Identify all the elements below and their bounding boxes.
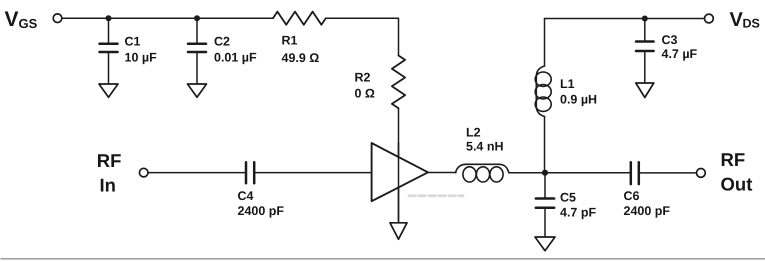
svg-text:GS: GS: [19, 16, 38, 31]
label VDS: [730, 9, 760, 31]
terminal VGS: [53, 14, 62, 23]
svg-text:4.7 µF: 4.7 µF: [662, 47, 698, 61]
label C2 value: [214, 34, 257, 64]
label C6 value: [624, 189, 671, 218]
label L1 value: [560, 77, 597, 106]
wire RF In: [148, 172, 244, 174]
capacitor C4: [246, 162, 371, 183]
label C3 value: [662, 33, 698, 61]
svg-text:10 µF: 10 µF: [125, 51, 158, 65]
svg-text:Out: Out: [721, 174, 753, 195]
label C1 value: [125, 34, 158, 64]
svg-text:C1: C1: [125, 34, 141, 48]
svg-text:RF: RF: [721, 149, 746, 170]
label C4 value: [238, 189, 285, 218]
ground under C2: [188, 84, 207, 97]
wire L2 to C6: [509, 172, 630, 174]
svg-text:R2: R2: [355, 71, 371, 85]
svg-text:C4: C4: [238, 189, 254, 203]
node C2 junction: [194, 15, 200, 21]
ground under C1: [99, 84, 118, 97]
svg-text:5.4 nH: 5.4 nH: [466, 140, 504, 154]
ground under C3: [636, 83, 654, 98]
svg-text:C5: C5: [560, 190, 576, 204]
ground under C5: [535, 237, 555, 251]
svg-text:L1: L1: [560, 77, 575, 91]
wire R1 to corner and down to R2: [326, 18, 399, 55]
wire amp output: [428, 172, 456, 174]
node C1 junction: [106, 15, 112, 21]
wire R2 line through amp: [398, 143, 400, 223]
label L2 value: [466, 126, 504, 154]
svg-text:2400 pF: 2400 pF: [624, 204, 671, 218]
wire VDS rail down to L1: [544, 19, 546, 67]
svg-text:0 Ω: 0 Ω: [355, 87, 375, 101]
svg-text:2400 pF: 2400 pF: [238, 204, 285, 218]
label RF In: [97, 150, 122, 196]
svg-text:4.7 pF: 4.7 pF: [560, 206, 596, 220]
svg-text:C6: C6: [624, 189, 640, 203]
label R1 value: [282, 34, 320, 66]
resistor R2: [392, 56, 405, 109]
terminal RF In: [139, 168, 148, 177]
inductor L2: [456, 164, 509, 182]
capacitor C3: [636, 19, 654, 84]
resistor R1: [273, 12, 326, 25]
svg-text:C2: C2: [214, 34, 230, 48]
svg-text:V: V: [5, 8, 19, 31]
capacitor C2: [188, 18, 206, 84]
terminal RF Out: [697, 169, 706, 178]
svg-text:V: V: [730, 9, 744, 31]
svg-text:DS: DS: [743, 17, 760, 31]
wire VGS rail: [62, 17, 273, 19]
capacitor C6: [631, 162, 697, 184]
scan artifact bottom line: [1, 258, 765, 260]
terminal VDS: [705, 14, 714, 23]
svg-text:C3: C3: [662, 33, 678, 47]
svg-text:0.9 µH: 0.9 µH: [560, 93, 597, 107]
label C5 value: [560, 190, 596, 219]
node C3 junction: [642, 16, 648, 22]
svg-text:R1: R1: [282, 34, 298, 48]
svg-text:RF: RF: [97, 150, 122, 171]
svg-text:0.01 µF: 0.01 µF: [214, 51, 257, 65]
svg-text:In: In: [100, 175, 116, 196]
wire R2 through amplifier to ground: [398, 108, 400, 222]
erased watermark smudge: [409, 194, 463, 197]
wire L1 to output node: [544, 117, 546, 173]
svg-text:L2: L2: [466, 126, 481, 140]
capacitor C5: [536, 173, 554, 237]
label RF Out: [721, 149, 753, 194]
op-amp U1: [372, 143, 428, 201]
svg-text:49.9 Ω: 49.9 Ω: [282, 51, 320, 65]
wire VDS rail: [545, 18, 705, 20]
inductor L1: [535, 66, 551, 117]
node output junction: [542, 170, 548, 176]
capacitor C1: [100, 18, 118, 84]
ground under amplifier: [390, 223, 407, 239]
label R2 value: [355, 71, 375, 101]
label VGS: [5, 8, 38, 31]
